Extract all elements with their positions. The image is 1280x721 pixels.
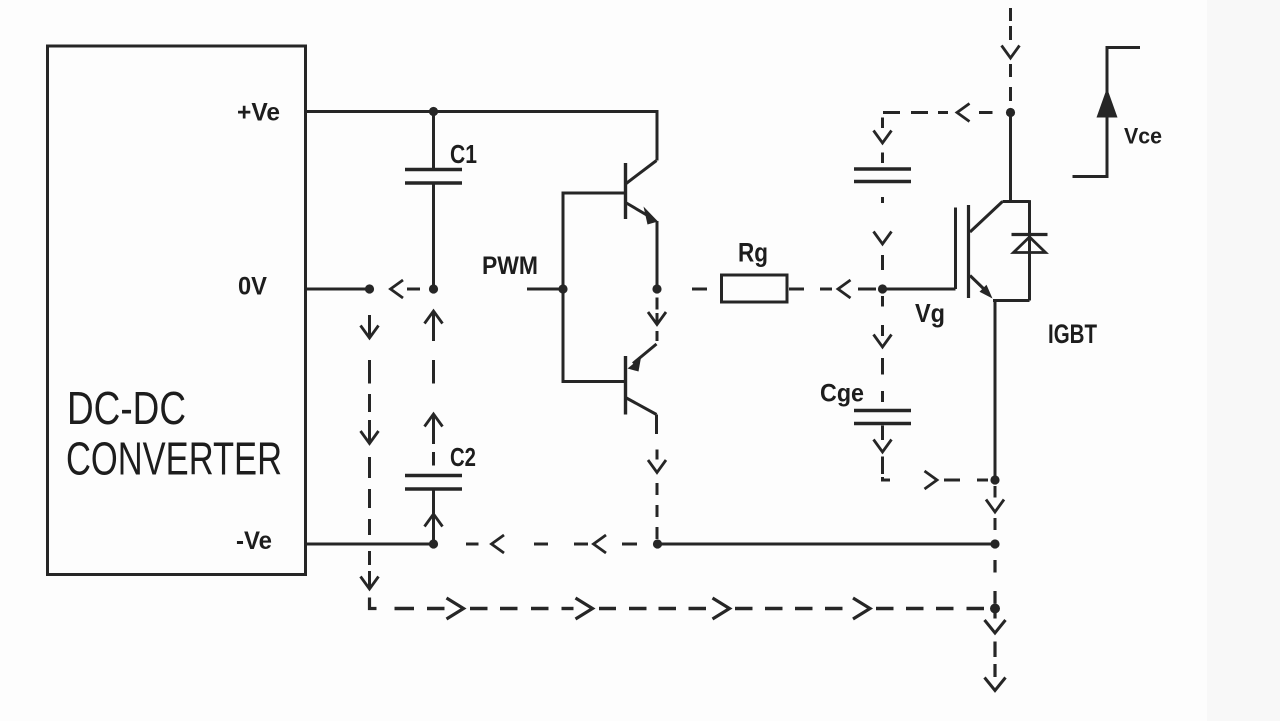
current arrow downward on left return (3) [361,577,379,590]
dashed wire driver output down to Q2 emitter with current arrow [656,298,659,310]
current arrow downward into collector node [1002,46,1020,59]
node Vg (gate) junction [878,284,887,293]
dashed wire collector node to Cgc (leftward) [883,111,900,114]
svg-text:-Ve: -Ve [236,527,272,555]
node 0V / return junction [365,284,374,293]
current arrow leftward on -Ve (1) [492,535,505,553]
dashed -Ve return path with current arrows [466,543,479,546]
capacitor C1 plates [405,168,462,171]
wire driver base rail (joins Q1 and Q2 bases) [563,193,626,382]
dashed wire emitter to -Ve with current arrow [994,486,997,498]
wire -Ve solid part to emitter [658,543,996,546]
dash-dot wire Cgc to gate node [881,197,884,203]
dashed wire collector current from top [1009,8,1012,21]
current arrow downward to -Ve node [986,500,1004,513]
current arrow downward on left return (2) [361,431,379,444]
svg-text:Vce: Vce [1124,124,1162,149]
node driver return / -Ve junction [653,539,662,548]
current arrow downward on tail (1) [985,620,1006,633]
svg-text:Cge: Cge [820,380,864,408]
wire gate node to IGBT gate [883,288,956,291]
svg-text:0V: 0V [238,273,267,301]
node emitter / Cge junction [990,475,999,484]
wire PWM input stub [527,288,563,291]
current arrow downward on left return (1) [361,326,379,339]
diode D1 (anti-parallel inside IGBT) [1012,235,1048,253]
dash of 0V dashed wire [407,288,420,291]
current arrow rightward on bus (2) [576,598,593,619]
current arrow rightward on bus (3) [713,598,730,619]
current arrow downward to gate node [874,232,892,245]
node PWM / driver base junction [558,284,567,293]
current arrow rightward on bus (4) [853,598,870,619]
current arrow into gate node (leftward) [838,280,851,298]
dashed wire 0V return down the left side with current arrows [368,315,371,336]
current arrow downward to -Ve [648,460,666,473]
current arrow downward above Q2 [648,312,666,325]
current arrow upward below C2 [425,514,443,527]
dashed wire Cge to emitter node [881,426,884,441]
capacitor C2 plates [405,474,462,477]
DC-DC converter module U1 box [48,46,306,575]
Vce measurement bracket [1073,48,1141,177]
capacitor C1 top lead [432,112,435,169]
svg-text:CONVERTER: CONVERTER [66,433,282,485]
current arrow downward into Cgc [874,131,892,144]
dashed wire Rg to gate node [789,288,804,291]
wire -Ve from converter (solid part) [306,543,434,546]
wire Q1 emitter to driver output node [656,221,659,289]
corner of Cge return path [883,477,891,480]
current arrow leftward on -Ve (2) [594,535,607,553]
wire +Ve rail from converter to Q1 collector [306,112,658,161]
wire IGBT collector up to node [1009,113,1012,202]
dash [858,288,876,291]
dashed wire driver output to Rg [692,288,707,291]
svg-text:Rg: Rg [738,238,768,268]
dashed wire bus tail downward with current arrows [993,613,996,619]
capacitor Cge plates [854,409,911,412]
dashed wire -Ve node down to bus node [993,560,996,573]
dashed ground return bus with current arrows [395,607,415,610]
node C1 / C2 / 0V junction [429,284,438,293]
current arrow leftward into Cgc branch [957,104,970,122]
Vce arrow (filled, pointing up) [1097,88,1118,118]
transistor Q2 (PNP, driver low side) [626,344,657,415]
current arrow rightward on bus (1) [447,598,464,619]
dash [881,153,884,164]
node driver output [652,284,661,293]
wire 0V from converter [306,288,370,291]
svg-text:Vg: Vg [915,298,945,328]
capacitor C1 bottom lead [432,185,435,290]
svg-text:C2: C2 [450,442,476,472]
current arrow rightward to emitter [925,471,938,489]
current arrow downward above Cge [874,335,892,348]
transistor Q3 (IGBT) [956,200,1030,300]
node bus / emitter tail junction [990,604,1000,614]
node collector / Cgc junction [1006,108,1015,117]
dashed wire down into Cgc [881,118,884,129]
wire C2 bottom lead [432,491,435,545]
current arrow upward above C2 (1) [425,311,443,324]
current arrow downward below Cge [874,440,892,453]
svg-text:DC-DC: DC-DC [67,382,186,434]
node +Ve / C1 junction [429,107,438,116]
dashed wire 0V node down to C2 with current arrows [432,313,435,341]
svg-text:IGBT: IGBT [1048,319,1097,349]
dash [656,331,659,341]
current arrow upward above C2 (2) [425,414,443,427]
svg-text:PWM: PWM [482,252,538,280]
resistor Rg [722,275,788,302]
wire IGBT emitter down [994,301,997,481]
current arrow on 0V wire (leftward) [391,280,404,298]
svg-text:C1: C1 [450,139,477,169]
corner of left return into bottom bus [370,598,377,609]
dashed wire gate node down to Cge [881,296,884,307]
capacitor Cgc (gate-collector) plates [854,167,911,170]
current arrow downward on tail (2) [985,678,1006,691]
svg-text:+Ve: +Ve [237,99,280,127]
wire Q2 collector down to -Ve (partly dashed) [655,415,658,435]
transistor Q1 (NPN, driver high side) [626,161,659,225]
node emitter / -Ve junction [990,539,999,548]
node -Ve / C2 junction [429,539,438,548]
